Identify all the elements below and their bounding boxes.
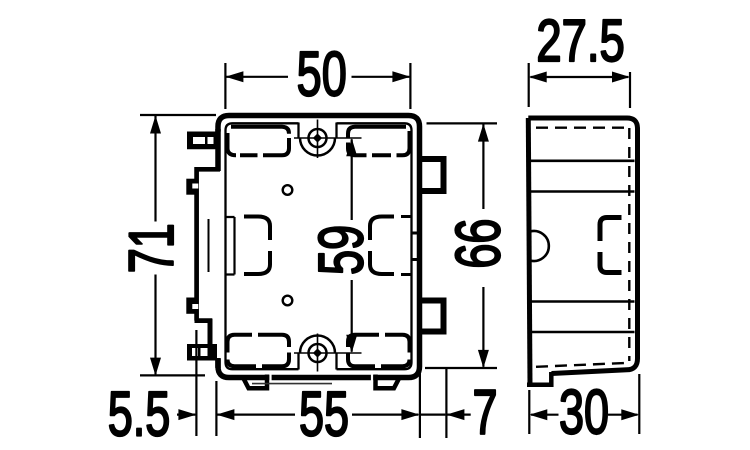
- right foot: [376, 375, 401, 389]
- dimension 30 lines: [531, 414, 638, 416]
- dimension 7 arrowhead: [446, 409, 464, 420]
- bottom screw circle: [309, 344, 327, 362]
- dimension 5.5 arrowhead: [178, 409, 196, 420]
- inner box right half outline: [337, 123, 412, 369]
- right tab bottom (outline): [420, 301, 444, 332]
- left wall lower mid segment: [208, 319, 213, 347]
- dimension 27.5 line: [531, 76, 629, 78]
- dimension 5.5 leader line: [177, 414, 195, 416]
- dimension 66 arrowheads: [478, 124, 489, 368]
- right foot slit: [371, 374, 373, 382]
- top screw circle: [309, 129, 327, 147]
- bottom screw boss arc: [300, 336, 335, 354]
- knockout middle-right dashed (open right): [370, 217, 394, 275]
- dimension 30 extension lines: [529, 374, 639, 434]
- bottom screw center dot: [313, 348, 322, 357]
- dimension 71 lines: [154, 116, 156, 374]
- small tab B upper-left (filled with notch): [186, 179, 196, 195]
- knockout top-right dashed: [348, 127, 410, 156]
- side view screw boss semicircle: [530, 231, 549, 261]
- svg-text:30: 30: [559, 376, 609, 447]
- dimension 66 lines: [482, 124, 484, 366]
- left recessed wall: [194, 167, 199, 321]
- dimension 7 line: [420, 414, 470, 416]
- top screw crosshair: [294, 120, 362, 159]
- dimension 66 extension lines: [425, 123, 497, 368]
- dimension 5.5 extension lines: [196, 330, 216, 436]
- side view flange line 3: [531, 300, 635, 303]
- svg-text:59: 59: [305, 225, 376, 275]
- outer box front view main outline: [218, 116, 420, 378]
- inner box left half outline: [226, 123, 299, 369]
- side view right hidden dashed line: [628, 128, 630, 361]
- dimension 50 lines: [226, 76, 409, 78]
- knockout middle-left dashed (open left): [244, 217, 270, 275]
- small hole upper: [283, 185, 293, 195]
- dimension 27.5 extension lines: [529, 63, 630, 108]
- mounting tab A top-left (filled with slots): [187, 132, 217, 150]
- svg-text:71: 71: [116, 223, 187, 273]
- tab D slot white holes: [192, 348, 208, 356]
- top screw boss arc: [300, 138, 335, 156]
- recess inner line: [208, 219, 210, 272]
- mounting tab D bottom-left (filled with slots): [187, 344, 217, 361]
- thin line under bottom edge: [252, 383, 332, 385]
- dimension 71 arrowheads: [150, 116, 161, 376]
- side view top edge and right edge: [528, 118, 637, 374]
- dimension 7 extension lines: [420, 367, 447, 438]
- svg-text:27.5: 27.5: [536, 8, 624, 74]
- side view flange line 2: [531, 190, 635, 193]
- right tab top (outline): [420, 159, 444, 191]
- side view foot: [527, 372, 551, 387]
- svg-text:55: 55: [299, 378, 349, 449]
- svg-text:7: 7: [472, 376, 497, 447]
- dimension 30 arrowheads: [529, 409, 639, 420]
- dimension 55 lines: [217, 414, 418, 416]
- left wall upper segment: [215, 129, 221, 171]
- knockout bottom-left dashed: [228, 335, 290, 366]
- left wall step top: [197, 167, 220, 172]
- knockout bottom-right dashed: [348, 335, 410, 366]
- tab B notch: [192, 184, 198, 189]
- top screw boss sides: [299, 123, 337, 139]
- small hole lower: [283, 296, 293, 306]
- knockout top-left dashed: [228, 127, 290, 156]
- left wall step bottom: [195, 318, 213, 323]
- slot rect middle-left: [226, 217, 235, 275]
- left wall bottom segment: [215, 358, 221, 368]
- small tab C lower-left (filled with notch): [186, 298, 196, 314]
- side view flange line 4: [531, 331, 635, 334]
- side view clamp bracket: [600, 218, 622, 273]
- dimension 71 extension lines: [140, 115, 216, 375]
- dimension 50 extension lines: [225, 63, 410, 109]
- left foot slit: [269, 374, 271, 382]
- dimension 50 arrowheads: [225, 71, 410, 82]
- dimension 27.5 arrowheads: [529, 72, 630, 83]
- dimension 55 arrowheads: [216, 409, 419, 420]
- side view flange line 1: [531, 160, 635, 163]
- left foot: [243, 375, 268, 389]
- right wall inner ticks: [412, 233, 420, 260]
- bottom screw boss sides: [299, 353, 337, 370]
- svg-text:66: 66: [442, 219, 513, 269]
- side view left edge: [528, 118, 530, 385]
- svg-text:5.5: 5.5: [108, 378, 171, 449]
- dimension 59 arrowheads: [346, 138, 357, 352]
- tab C notch: [192, 304, 198, 309]
- svg-text:50: 50: [297, 38, 347, 109]
- side view bottom hidden dashed line: [536, 363, 625, 367]
- top screw center dot: [313, 133, 322, 142]
- bottom screw crosshair: [294, 334, 362, 372]
- tab A slot white holes: [193, 137, 214, 144]
- side view top hidden dashed line: [536, 126, 629, 128]
- right wall outer ticks: [401, 217, 412, 275]
- dimension 59 lines: [351, 139, 353, 351]
